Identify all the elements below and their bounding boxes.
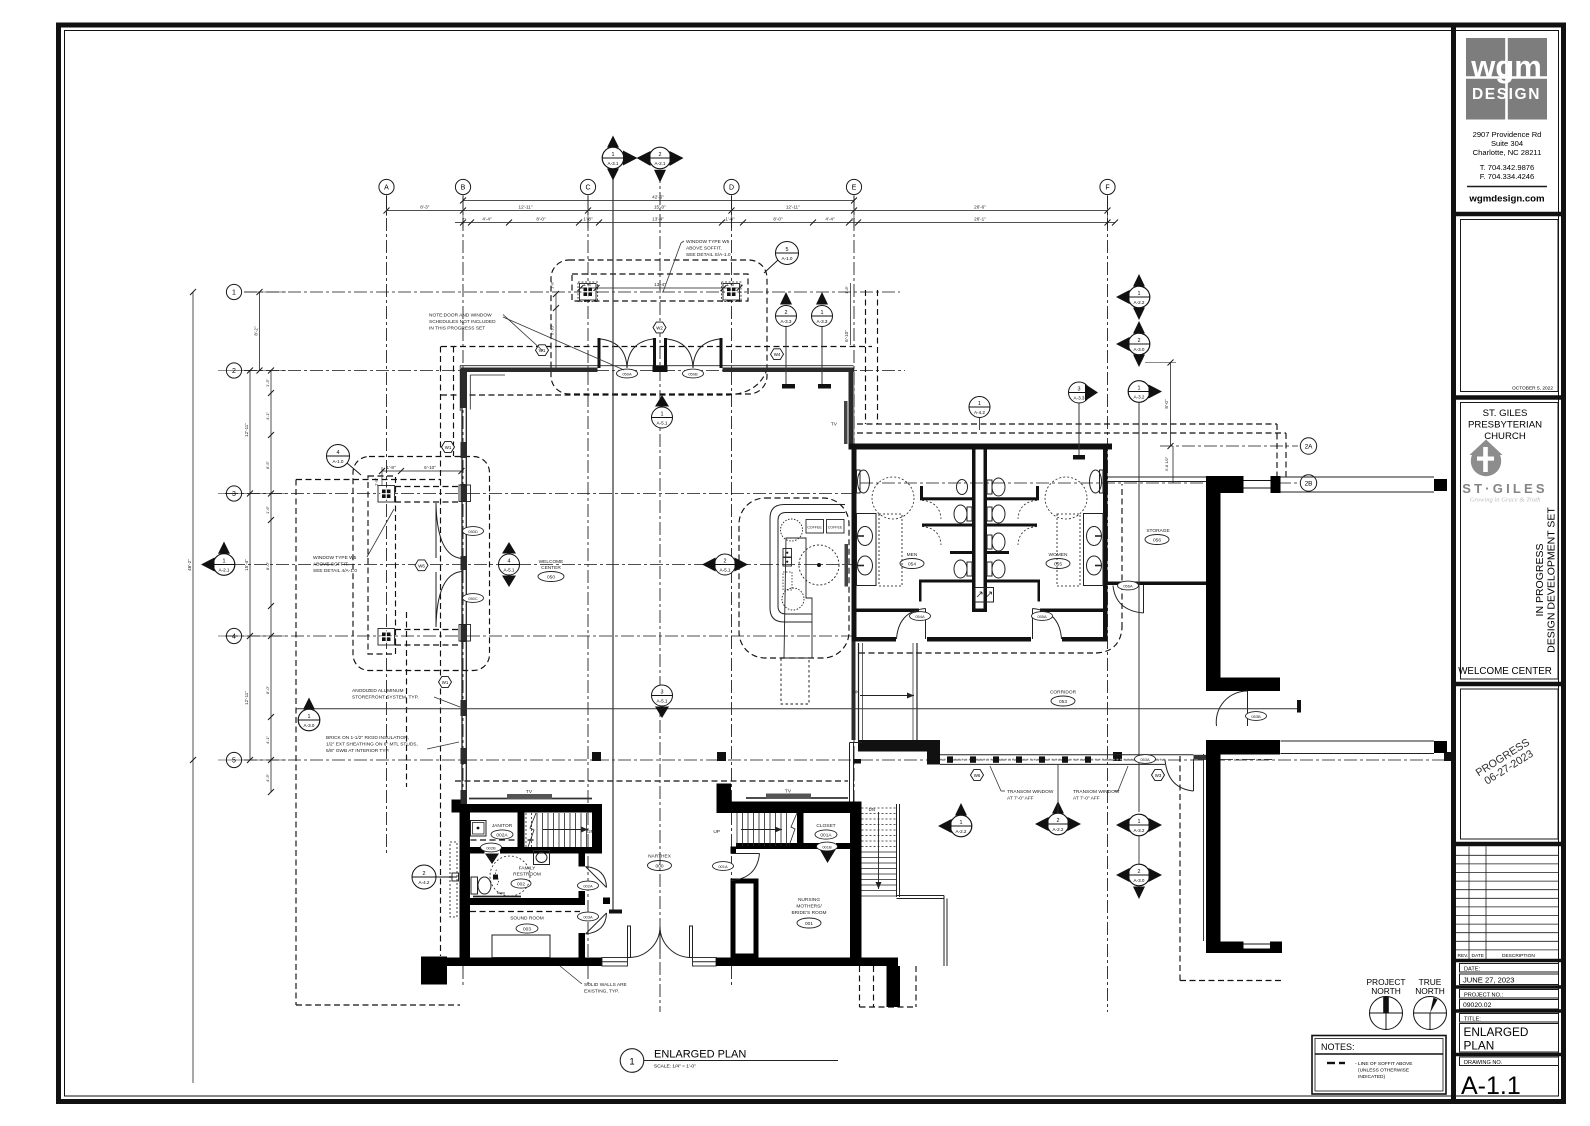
svg-text:PLAN: PLAN [1464,1039,1495,1053]
grid line 1 [244,291,900,293]
transom window wall [940,755,1194,765]
svg-text:DN: DN [853,690,859,695]
svg-text:1: 1 [1138,291,1141,297]
svg-text:DESIGN DEVELOPMENT SET: DESIGN DEVELOPMENT SET [1546,507,1558,653]
door 054A leaf and swing [925,609,927,640]
notes box [1312,1036,1446,1095]
svg-text:12'-11": 12'-11" [519,205,533,210]
storefront north wall west segment [461,368,598,373]
svg-text:2: 2 [232,368,236,375]
top dimension texts [420,195,986,222]
elevation marker 3/A-3.3 [1069,382,1099,460]
room label women 055 [1046,552,1070,569]
vestibule west jamb vertical dimension [555,294,557,368]
svg-text:E: E [852,185,857,192]
svg-text:F. 704.334.4246: F. 704.334.4246 [1480,172,1534,181]
grid line 3 [225,493,852,495]
svg-text:1'-8": 1'-8" [725,217,735,222]
svg-text:WELCOME CENTER: WELCOME CENTER [1458,666,1552,677]
svg-text:PRESBYTERIAN: PRESBYTERIAN [1468,420,1542,431]
svg-text:3: 3 [1078,386,1081,392]
northeast corner wall down [849,368,854,447]
svg-text:2: 2 [423,871,426,877]
svg-text:TV: TV [526,789,533,795]
svg-text:ST. GILES: ST. GILES [1483,408,1528,419]
svg-text:4: 4 [337,450,340,456]
svg-text:MEN: MEN [907,552,918,558]
dn shaft walls [859,643,918,740]
svg-text:JUNE 27, 2023: JUNE 27, 2023 [1463,976,1515,985]
svg-text:054: 054 [908,562,916,568]
kitchen counter [770,505,845,623]
dn ramp arrow in shaft [860,695,914,697]
mens toilet 1 [954,505,967,523]
svg-text:TRANSOM WINDOW: TRANSOM WINDOW [1007,789,1054,795]
existing wall lines running east [1281,477,1435,754]
svg-text:SEE DETAIL S/A-1.0: SEE DETAIL S/A-1.0 [686,252,731,258]
svg-text:09020.02: 09020.02 [1463,1002,1492,1009]
grid line 2 [244,370,905,372]
svg-text:INDICATED): INDICATED) [1358,1074,1385,1080]
kitchen island [784,538,812,658]
svg-text:W1: W1 [442,680,449,685]
left block stair treads [526,813,587,847]
kitchen equipment squares [783,549,792,558]
svg-text:4'-3": 4'-3" [265,773,270,782]
room label family restroom 002 [511,866,541,889]
dn stair treads [862,808,897,896]
svg-text:1: 1 [1138,385,1141,391]
svg-text:1: 1 [629,1057,634,1068]
svg-text:STORAGE: STORAGE [1146,528,1169,534]
firm address [1473,130,1542,181]
svg-text:4: 4 [508,558,511,564]
mens toilet 2 [954,560,967,578]
svg-text:TV: TV [831,422,838,428]
bottom wall center segment [716,958,898,967]
welcome center east wall at corridor [852,642,856,741]
svg-text:1'-8": 1'-8" [374,477,379,486]
family restroom grab bars [473,896,521,898]
door 050D leaf and swing [435,503,437,558]
pilaster at sound room nw corner [452,800,461,813]
nursing west wall [731,847,737,854]
mens hc circle [872,477,914,519]
bottom-left block north wall [460,804,603,813]
column D1 [723,284,740,301]
svg-text:7": 7" [462,217,466,222]
svg-text:COFFEE: COFFEE [828,526,843,530]
sound room counter [492,935,550,958]
mens toilet partitions [919,486,972,602]
svg-text:4'-1": 4'-1" [265,735,270,744]
true north arrow [1414,977,1447,1030]
exterior canopy dashed outline left [296,479,441,481]
nursing block north wall [717,802,862,814]
svg-text:TV: TV [785,789,792,795]
wall below dn shaft [858,740,940,752]
soffit over janitor room [461,839,537,841]
section line horizontal mid plan [296,708,1299,710]
svg-text:W1: W1 [445,445,452,450]
st giles logo [1470,440,1503,477]
svg-text:ENLARGED: ENLARGED [1464,1025,1529,1039]
svg-text:wgmdesign.com: wgmdesign.com [1468,194,1544,205]
room label nursing 001 [791,897,826,928]
section marker 1/A-3.1 [602,136,637,181]
svg-text:002A: 002A [496,833,508,839]
svg-text:4: 4 [232,634,236,641]
section marker 1/A-2.1 left [201,542,235,576]
door 053A leaf and swing [1193,759,1195,791]
section marker 2/A-3.0 right [1116,321,1150,367]
svg-text:REV.: REV. [1458,953,1469,959]
svg-text:001A: 001A [820,833,832,839]
svg-text:B: B [461,185,466,192]
tv on restroom west wall [845,544,849,587]
svg-text:050C: 050C [468,596,478,601]
window tag W1 left wing top [442,442,455,453]
project name [1468,408,1542,442]
stair enclosure wall left block [592,813,602,854]
bottom wall left segment [421,957,447,985]
divider [1456,212,1564,217]
svg-text:C: C [585,185,590,192]
svg-text:8'-0": 8'-0" [265,561,270,570]
storage south wall [1108,582,1207,586]
project north arrow [1366,977,1405,1030]
elevation marker 2/A-3.3 [776,292,797,389]
note door and window schedules [429,313,624,371]
svg-text:STOREFRONT SYSTEM, TYP.: STOREFRONT SYSTEM, TYP. [352,695,419,701]
svg-text:1'-8": 1'-8" [844,285,849,294]
svg-text:2: 2 [1057,818,1060,824]
rule [1467,186,1547,188]
svg-text:UP: UP [713,829,720,835]
svg-text:2: 2 [785,310,788,316]
svg-text:A-2.2: A-2.2 [1134,300,1145,305]
janitor mop sink [471,821,487,837]
svg-text:1: 1 [232,290,236,297]
grid line C [587,196,589,985]
svg-text:OCTOBER 5, 2022: OCTOBER 5, 2022 [1512,386,1553,392]
project number block [1456,985,1564,989]
svg-text:A-5.1: A-5.1 [657,421,668,426]
svg-text:DESCRIPTION: DESCRIPTION [1502,953,1535,959]
column A4 [378,629,395,646]
family restroom east nook walls [579,854,586,867]
narthex window west [602,958,628,967]
section marker 1/A-3.0 bottom left [298,698,320,731]
window tag W1 left of vestibule [536,345,549,356]
closet west wall [797,813,804,846]
columns at grid 5 row [592,752,601,761]
womens toilet 2 [992,505,1005,523]
svg-text:001A: 001A [718,864,728,869]
column A3 [378,486,395,503]
svg-text:DATE:: DATE: [1464,967,1481,973]
womens toilet 1 [992,478,1005,496]
svg-text:2B: 2B [1305,481,1313,488]
svg-text:Growing in Grace & Truth: Growing in Grace & Truth [1470,497,1542,504]
door 002B leaf [485,854,499,865]
svg-text:A-2.1: A-2.1 [219,568,230,573]
svg-text:A-1.0: A-1.0 [333,459,344,464]
svg-text:W4: W4 [774,352,781,357]
dn stair arrow [878,812,880,889]
mens corner lav [858,470,870,493]
svg-text:SOLID WALLS ARE: SOLID WALLS ARE [584,982,627,988]
drawing number block [1456,1053,1564,1057]
womens toilet 4 [992,560,1005,578]
door tag ovals [463,369,1267,921]
narthex entry door swings [629,927,660,958]
svg-text:DRAWING NO.: DRAWING NO. [1464,1060,1503,1066]
divider [1456,682,1564,687]
existing wall stub middle right [1221,678,1281,692]
svg-text:Charlotte, NC 28211: Charlotte, NC 28211 [1473,148,1542,157]
svg-text:TITLE:: TITLE: [1464,1017,1481,1023]
svg-text:A-3.3: A-3.3 [1074,396,1085,401]
svg-text:1: 1 [960,820,963,826]
section marker 1/A-3.2 upper [1128,381,1162,812]
svg-text:2: 2 [724,558,727,564]
room label narthex 000 [648,854,672,871]
svg-text:42'-6": 42'-6" [652,195,664,200]
restroom entry interior walls [857,609,920,613]
svg-text:3: 3 [232,491,236,498]
svg-text:000: 000 [655,864,663,870]
svg-text:1'-6": 1'-6" [265,505,270,514]
svg-text:002B: 002B [486,845,496,850]
svg-text:1/2" EXT SHEATHING ON 6" MTL S: 1/2" EXT SHEATHING ON 6" MTL STUDS, [326,742,418,748]
svg-text:A-1.0: A-1.0 [782,256,793,261]
bottom-left block west wall [460,804,471,966]
room label storage 056 [1145,528,1170,545]
svg-text:1'-3": 1'-3" [265,378,270,387]
section marker 2/A-2.1 [637,147,684,182]
window tag W1 left wing bottom [439,677,452,688]
restroom west wall [852,450,857,641]
svg-text:wgm: wgm [1470,49,1542,84]
svg-text:8'-2": 8'-2" [254,326,259,336]
svg-text:A-3.3: A-3.3 [781,319,792,324]
kitchen round tables [781,519,803,541]
svg-text:12'-11": 12'-11" [786,205,800,210]
west storefront mullions [461,369,468,804]
door 050A pair leaves [598,338,601,368]
door 050B pair leaves [664,338,667,368]
door 002A leaf and swing [586,867,607,888]
svg-text:A-1.1: A-1.1 [1461,1072,1521,1100]
centerline welcome center e-w [210,564,852,566]
svg-text:IN PROGRESS: IN PROGRESS [1534,544,1546,617]
svg-text:AT 7'-0" AFF: AT 7'-0" AFF [1073,796,1100,802]
wgm design logo [1466,38,1547,120]
svg-text:SEE DETAIL 4/A-1.0: SEE DETAIL 4/A-1.0 [313,568,357,574]
soffit verticals west of storefront [440,347,442,957]
svg-text:Suite 304: Suite 304 [1491,139,1523,148]
svg-text:15'-0": 15'-0" [654,205,666,210]
vestibule inner soffit band [572,274,748,301]
section marker 1/A-3.2 bottom [1116,814,1162,864]
entry center mullion post [653,366,668,373]
grid line 4 [225,635,852,637]
top dimension line tier 1 [463,200,854,202]
svg-text:A-3.1: A-3.1 [608,161,619,166]
section marker 1/A-2.2 bottom [938,803,972,837]
dashed jamb rect at family restroom west [450,842,457,917]
svg-text:002: 002 [517,882,525,888]
right stair break line [789,813,797,846]
womens lav counter [1084,514,1104,586]
door 056A leaf and swing [1143,585,1145,613]
svg-text:ENLARGED PLAN: ENLARGED PLAN [654,1049,746,1061]
interior elevation marker 2/A-5.1 [702,554,748,575]
womens corner lav [1090,470,1102,493]
svg-text:13'-4": 13'-4" [652,217,664,222]
svg-text:6'-10": 6'-10" [550,324,555,335]
svg-text:26'-1": 26'-1" [974,217,986,222]
dashed drop west of sound room block [406,612,408,787]
title block [1456,1009,1564,1013]
svg-text:A-3.0: A-3.0 [1134,878,1145,883]
svg-text:EXISTING, TYP.: EXISTING, TYP. [584,989,619,995]
svg-text:8'-0": 8'-0" [773,217,783,222]
dimension extension drops from bubbles [387,195,1108,228]
left stair break line [528,813,536,847]
left dimension texts (rotated) [187,326,270,782]
svg-text:5/8" GWB AT INTERIOR TYP.: 5/8" GWB AT INTERIOR TYP. [326,748,389,754]
family restroom toilet [471,877,478,894]
storefront north wall east segment [723,368,854,373]
svg-text:A-2.2: A-2.2 [956,829,967,834]
svg-text:1: 1 [821,310,824,316]
svg-text:056: 056 [1153,538,1161,544]
svg-text:12'-11": 12'-11" [244,423,249,437]
svg-text:053A: 053A [1140,757,1150,762]
svg-text:8'-5": 8'-5" [265,460,270,469]
door 050C leaf and swing [435,572,437,627]
restroom vanity dotted boxes [879,514,902,586]
svg-text:A-3.0: A-3.0 [304,723,315,728]
svg-text:ABOVE SOFFIT.: ABOVE SOFFIT. [313,562,349,568]
svg-text:056A: 056A [1123,583,1133,588]
soffit under toilet block [859,652,1096,654]
soffit stubs at left wing windows [395,486,462,488]
detail marker 4/A-1.0 [327,445,362,476]
womens toilet partitions [987,486,1040,602]
svg-text:4'-4": 4'-4" [825,217,835,222]
svg-text:5: 5 [232,758,236,765]
svg-text:26'-6": 26'-6" [974,205,986,210]
tv wall right [746,797,848,799]
svg-text:4'-1": 4'-1" [265,411,270,420]
svg-text:(UNLESS OTHERWISE: (UNLESS OTHERWISE [1358,1068,1409,1074]
detail marker 5/A-1.0 [764,242,799,274]
svg-text:NORTH: NORTH [1415,986,1445,996]
svg-text:W6: W6 [974,773,981,778]
right stair side wall [897,804,948,966]
janitor partition walls [518,813,525,854]
svg-text:1'-8": 1'-8" [550,280,555,289]
svg-text:2907 Providence Rd: 2907 Providence Rd [1473,130,1542,139]
womens toilet 3 [992,533,1005,551]
right side vertical dimension 8'-0" [1170,362,1172,446]
svg-text:D: D [729,185,734,192]
left dimension lines [259,292,261,371]
mens urinal [957,480,968,495]
svg-text:15'-4": 15'-4" [244,559,249,571]
svg-text:050B: 050B [688,371,698,376]
drinking fountains [975,588,985,603]
svg-text:1: 1 [978,401,981,407]
column C1 [580,284,597,301]
svg-text:050A: 050A [622,371,632,376]
grid line 2A [1160,445,1298,447]
divider [1456,395,1564,400]
svg-text:ANODIZED ALUMINUM: ANODIZED ALUMINUM [352,688,403,694]
coffee machines [806,520,824,534]
drawing title circle [620,1049,644,1073]
window sill boxes at left wing doors [459,485,471,502]
svg-text:1: 1 [661,411,664,417]
grid line E [853,196,855,962]
note anodized aluminum [352,688,460,707]
note transom window 1 [990,766,1054,802]
elevation marker 1/A-3.3 [812,292,833,389]
svg-text:JANITOR: JANITOR [492,823,513,829]
svg-text:003: 003 [523,927,531,933]
interior elevation marker 4/A-5.1 [499,542,520,587]
svg-text:A-5.1: A-5.1 [657,699,668,704]
soffit line above entry wall [441,346,872,348]
svg-text:055A: 055A [1037,614,1047,619]
stall door swings mens [922,527,941,546]
svg-text:2: 2 [1138,869,1141,875]
restroom south wall segments [852,637,897,642]
storefront wall outer face lines [460,365,854,367]
svg-text:A-3.0: A-3.0 [1134,347,1145,352]
note brick insulation [326,735,459,754]
svg-text:2A: 2A [1305,444,1314,451]
vestibule window dimensions [581,287,740,289]
narthex entry door posts [628,926,631,958]
svg-text:8'-0": 8'-0" [265,685,270,694]
tv wall left [469,798,592,800]
svg-text:050: 050 [547,575,555,581]
soffit in sound room [470,911,580,913]
room label corridor 053 [1050,690,1077,707]
svg-text:A-4.2: A-4.2 [974,410,985,415]
svg-text:A: A [384,185,389,192]
kitchen dashed drop [781,658,809,704]
svg-text:UP: UP [587,829,594,835]
top dimension line tier 3 [455,222,1115,224]
door 055A leaf and swing [1032,609,1034,640]
svg-text:13'-4": 13'-4" [654,282,666,287]
existing wall lower right [1206,740,1280,755]
svg-text:WINDOW TYPE W5: WINDOW TYPE W5 [313,555,357,561]
room label closet 001A [815,823,837,839]
svg-text:CLOSET: CLOSET [816,823,835,829]
door 050B swing arcs [667,339,693,368]
grid line A [386,196,388,856]
svg-text:6'-10": 6'-10" [424,465,436,470]
window tag W2 vestibule center [653,322,666,333]
room label men 054 [900,552,924,569]
grid line F [1107,196,1109,1012]
